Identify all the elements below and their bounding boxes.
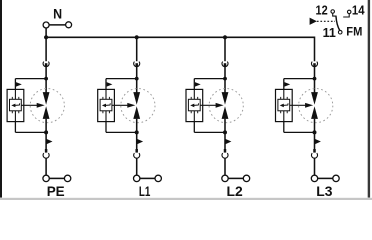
wire bus to plug-in connector (PE path) bbox=[45, 37, 47, 61]
switch box pins (L2) bbox=[191, 97, 198, 113]
terminal N right contact bbox=[66, 22, 72, 28]
plug-in connection bottom (L3 branch) pin bbox=[313, 149, 316, 153]
svg-text:12: 12 bbox=[316, 3, 328, 18]
pluggable module dashed circle (L1) bbox=[121, 89, 155, 123]
wire connector to arrester (PE branch) bbox=[45, 66, 47, 92]
svg-text:11: 11 bbox=[323, 25, 336, 40]
monitoring device inner lead (PE) bbox=[14, 89, 16, 121]
pluggable module dashed circle (L3) bbox=[299, 89, 333, 123]
terminal L2 left contact bbox=[222, 175, 228, 181]
wire to terminal L1 bbox=[136, 158, 138, 176]
junction on N bus at PE branch bbox=[44, 35, 48, 39]
bottom page border line bbox=[0, 198, 372, 200]
wire from monitoring branch bottom (L1) bbox=[106, 131, 137, 133]
disconnector flag on monitoring branch (L3) bbox=[284, 82, 290, 87]
thermal disconnect switch box (L2) bbox=[188, 99, 200, 111]
monitoring branch vertical wire (L3) bbox=[283, 79, 285, 133]
monitoring arrow to arrester (L3) bbox=[290, 104, 306, 106]
plug-in connection bottom (PE branch) socket bbox=[43, 153, 49, 158]
surge arrester spark gap (L3 branch) bbox=[311, 92, 318, 105]
monitoring device box (L1 branch) bbox=[98, 89, 115, 121]
plug-in connection bottom (L2 branch) socket bbox=[222, 153, 228, 158]
plug-in connection bottom (L2 branch) pin bbox=[224, 149, 227, 153]
thermal switch symbol (L2) bbox=[190, 104, 194, 108]
wire to monitoring branch top (PE) bbox=[15, 78, 46, 80]
disconnector flag on L3 lead bbox=[315, 139, 321, 144]
wire from monitoring branch bottom (PE) bbox=[15, 131, 46, 133]
FM contact point 11 bbox=[338, 30, 342, 34]
FM contact point 14 bbox=[347, 10, 351, 14]
monitoring arrow to arrester (L2) bbox=[200, 104, 216, 106]
thermal switch symbol (PE) bbox=[11, 104, 15, 108]
terminal N left contact bbox=[43, 22, 49, 28]
terminal L3 right contact bbox=[333, 175, 339, 181]
monitoring arrow to arrester (PE) bbox=[21, 104, 37, 106]
svg-text:FM: FM bbox=[346, 24, 362, 38]
junction node bottom (L2 branch) bbox=[223, 130, 227, 134]
junction node bottom (L3 branch) bbox=[313, 130, 317, 134]
switch box pins (PE) bbox=[12, 97, 18, 113]
monitoring arrow to arrester (L1) bbox=[112, 104, 128, 106]
monitoring device box (L2 branch) bbox=[186, 89, 203, 121]
surge arrester spark gap (L2 branch) bbox=[222, 92, 229, 105]
disconnector flag on monitoring branch (L2) bbox=[195, 82, 201, 87]
wire arrester to bottom junction (L2) bbox=[224, 119, 226, 150]
wire connector to arrester (L2 branch) bbox=[224, 66, 226, 92]
FM contact 14 seat bbox=[343, 14, 349, 17]
FM contact point 12 bbox=[331, 10, 335, 14]
plug-in connection bottom (L1 branch) pin bbox=[135, 149, 138, 153]
terminal L1 right contact bbox=[155, 175, 161, 181]
terminal N stub wire bbox=[45, 28, 47, 38]
wire bus to plug-in connector (L2 path) bbox=[224, 37, 226, 61]
wire to monitoring branch top (L1) bbox=[106, 78, 137, 80]
junction node top (L3 branch) bbox=[313, 77, 317, 81]
switch box pins (L1) bbox=[103, 97, 110, 113]
terminal N link wire bbox=[49, 24, 66, 26]
junction node bottom (L1 branch) bbox=[135, 130, 139, 134]
disconnector flag on monitoring branch (PE) bbox=[16, 82, 22, 87]
plug-in connection bottom (L3 branch) socket bbox=[311, 153, 317, 158]
thermal disconnect switch box (L1) bbox=[100, 99, 112, 111]
monitoring device inner lead (L2) bbox=[193, 89, 195, 121]
svg-text:L2: L2 bbox=[227, 183, 243, 199]
terminal L1 link wire bbox=[140, 177, 155, 179]
surge arrester spark gap (PE branch) bbox=[43, 92, 50, 105]
terminal PE right contact bbox=[64, 175, 70, 181]
svg-text:N: N bbox=[53, 6, 62, 22]
disconnector flag on L1 lead bbox=[137, 139, 143, 144]
right page border bar bbox=[368, 0, 370, 198]
svg-text:PE: PE bbox=[47, 183, 65, 199]
monitoring device box (PE branch) bbox=[7, 89, 24, 121]
terminal PE left contact bbox=[43, 175, 49, 181]
FM remote contact actuator arrow bbox=[310, 18, 317, 25]
svg-text:L3: L3 bbox=[316, 183, 332, 199]
plug-in connection top (L2 branch) pin bbox=[224, 63, 227, 67]
monitoring device inner lead (L1) bbox=[105, 89, 107, 121]
disconnector flag on PE lead bbox=[46, 139, 52, 144]
wire to monitoring branch top (L3) bbox=[284, 78, 315, 80]
wire to terminal PE bbox=[45, 158, 47, 176]
wire connector to arrester (L3 branch) bbox=[314, 66, 316, 92]
wire to terminal L2 bbox=[224, 158, 226, 176]
plug-in connection bottom (L1 branch) socket bbox=[134, 153, 140, 158]
plug-in connection top (PE branch) pin bbox=[45, 63, 48, 67]
svg-text:14: 14 bbox=[352, 3, 365, 18]
wire arrester to bottom junction (L1) bbox=[136, 119, 138, 150]
switch box pins (L3) bbox=[281, 97, 288, 113]
wire arrester to bottom junction (PE) bbox=[45, 119, 47, 150]
monitoring device box (L3 branch) bbox=[276, 89, 293, 121]
disconnector flag on L2 lead bbox=[225, 139, 231, 144]
terminal PE link wire bbox=[49, 177, 64, 179]
plug-in connection top (L2 branch) socket bbox=[222, 62, 228, 67]
monitoring branch vertical wire (PE) bbox=[14, 79, 16, 133]
junction on N bus at L1 branch bbox=[135, 35, 139, 39]
wire bus to plug-in connector (L1 path) bbox=[136, 37, 138, 61]
junction node bottom (PE branch) bbox=[44, 130, 48, 134]
junction node top (PE branch) bbox=[44, 77, 48, 81]
FM actuator dashed link bbox=[317, 20, 335, 22]
surge arrester spark gap (L1 branch) bbox=[133, 92, 140, 105]
FM contact 12 seat bbox=[333, 13, 337, 16]
junction node top (L2 branch) bbox=[223, 77, 227, 81]
terminal L3 link wire bbox=[318, 177, 333, 179]
disconnector flag on monitoring branch (L1) bbox=[107, 82, 113, 87]
N bus wire bbox=[46, 37, 314, 61]
wire to terminal L3 bbox=[314, 158, 316, 176]
thermal disconnect switch box (L3) bbox=[278, 99, 290, 111]
wire arrester to bottom junction (L3) bbox=[314, 119, 316, 150]
monitoring branch vertical wire (L2) bbox=[193, 79, 195, 133]
terminal L2 link wire bbox=[228, 177, 243, 179]
terminal L1 left contact bbox=[134, 175, 140, 181]
pluggable module dashed circle (L2) bbox=[209, 89, 243, 123]
plug-in connection top (L1 branch) socket bbox=[134, 62, 140, 67]
wire from monitoring branch bottom (L3) bbox=[284, 131, 315, 133]
terminal L2 right contact bbox=[243, 175, 249, 181]
terminal L3 left contact bbox=[311, 175, 317, 181]
thermal disconnect switch box (PE) bbox=[10, 99, 22, 111]
plug-in connection top (PE branch) socket bbox=[43, 62, 49, 67]
wire connector to arrester (L1 branch) bbox=[136, 66, 138, 92]
plug-in connection top (L3 branch) socket bbox=[311, 62, 317, 67]
plug-in connection top (L3 branch) pin bbox=[313, 63, 316, 67]
svg-text:L1: L1 bbox=[139, 183, 151, 199]
junction node top (L1 branch) bbox=[135, 77, 139, 81]
thermal switch symbol (L3) bbox=[280, 104, 284, 108]
monitoring device inner lead (L3) bbox=[283, 89, 285, 121]
pluggable module dashed circle (PE) bbox=[30, 89, 64, 123]
thermal switch symbol (L1) bbox=[102, 104, 106, 108]
left page border bar bbox=[0, 0, 2, 198]
wire to monitoring branch top (L2) bbox=[194, 78, 225, 80]
plug-in connection top (L1 branch) pin bbox=[135, 63, 138, 67]
junction on N bus at L2 branch bbox=[223, 35, 227, 39]
plug-in connection bottom (PE branch) pin bbox=[45, 149, 48, 153]
monitoring branch vertical wire (L1) bbox=[105, 79, 107, 133]
wire from monitoring branch bottom (L2) bbox=[194, 131, 225, 133]
FM changeover contact arm (terminal 11) bbox=[336, 16, 340, 30]
